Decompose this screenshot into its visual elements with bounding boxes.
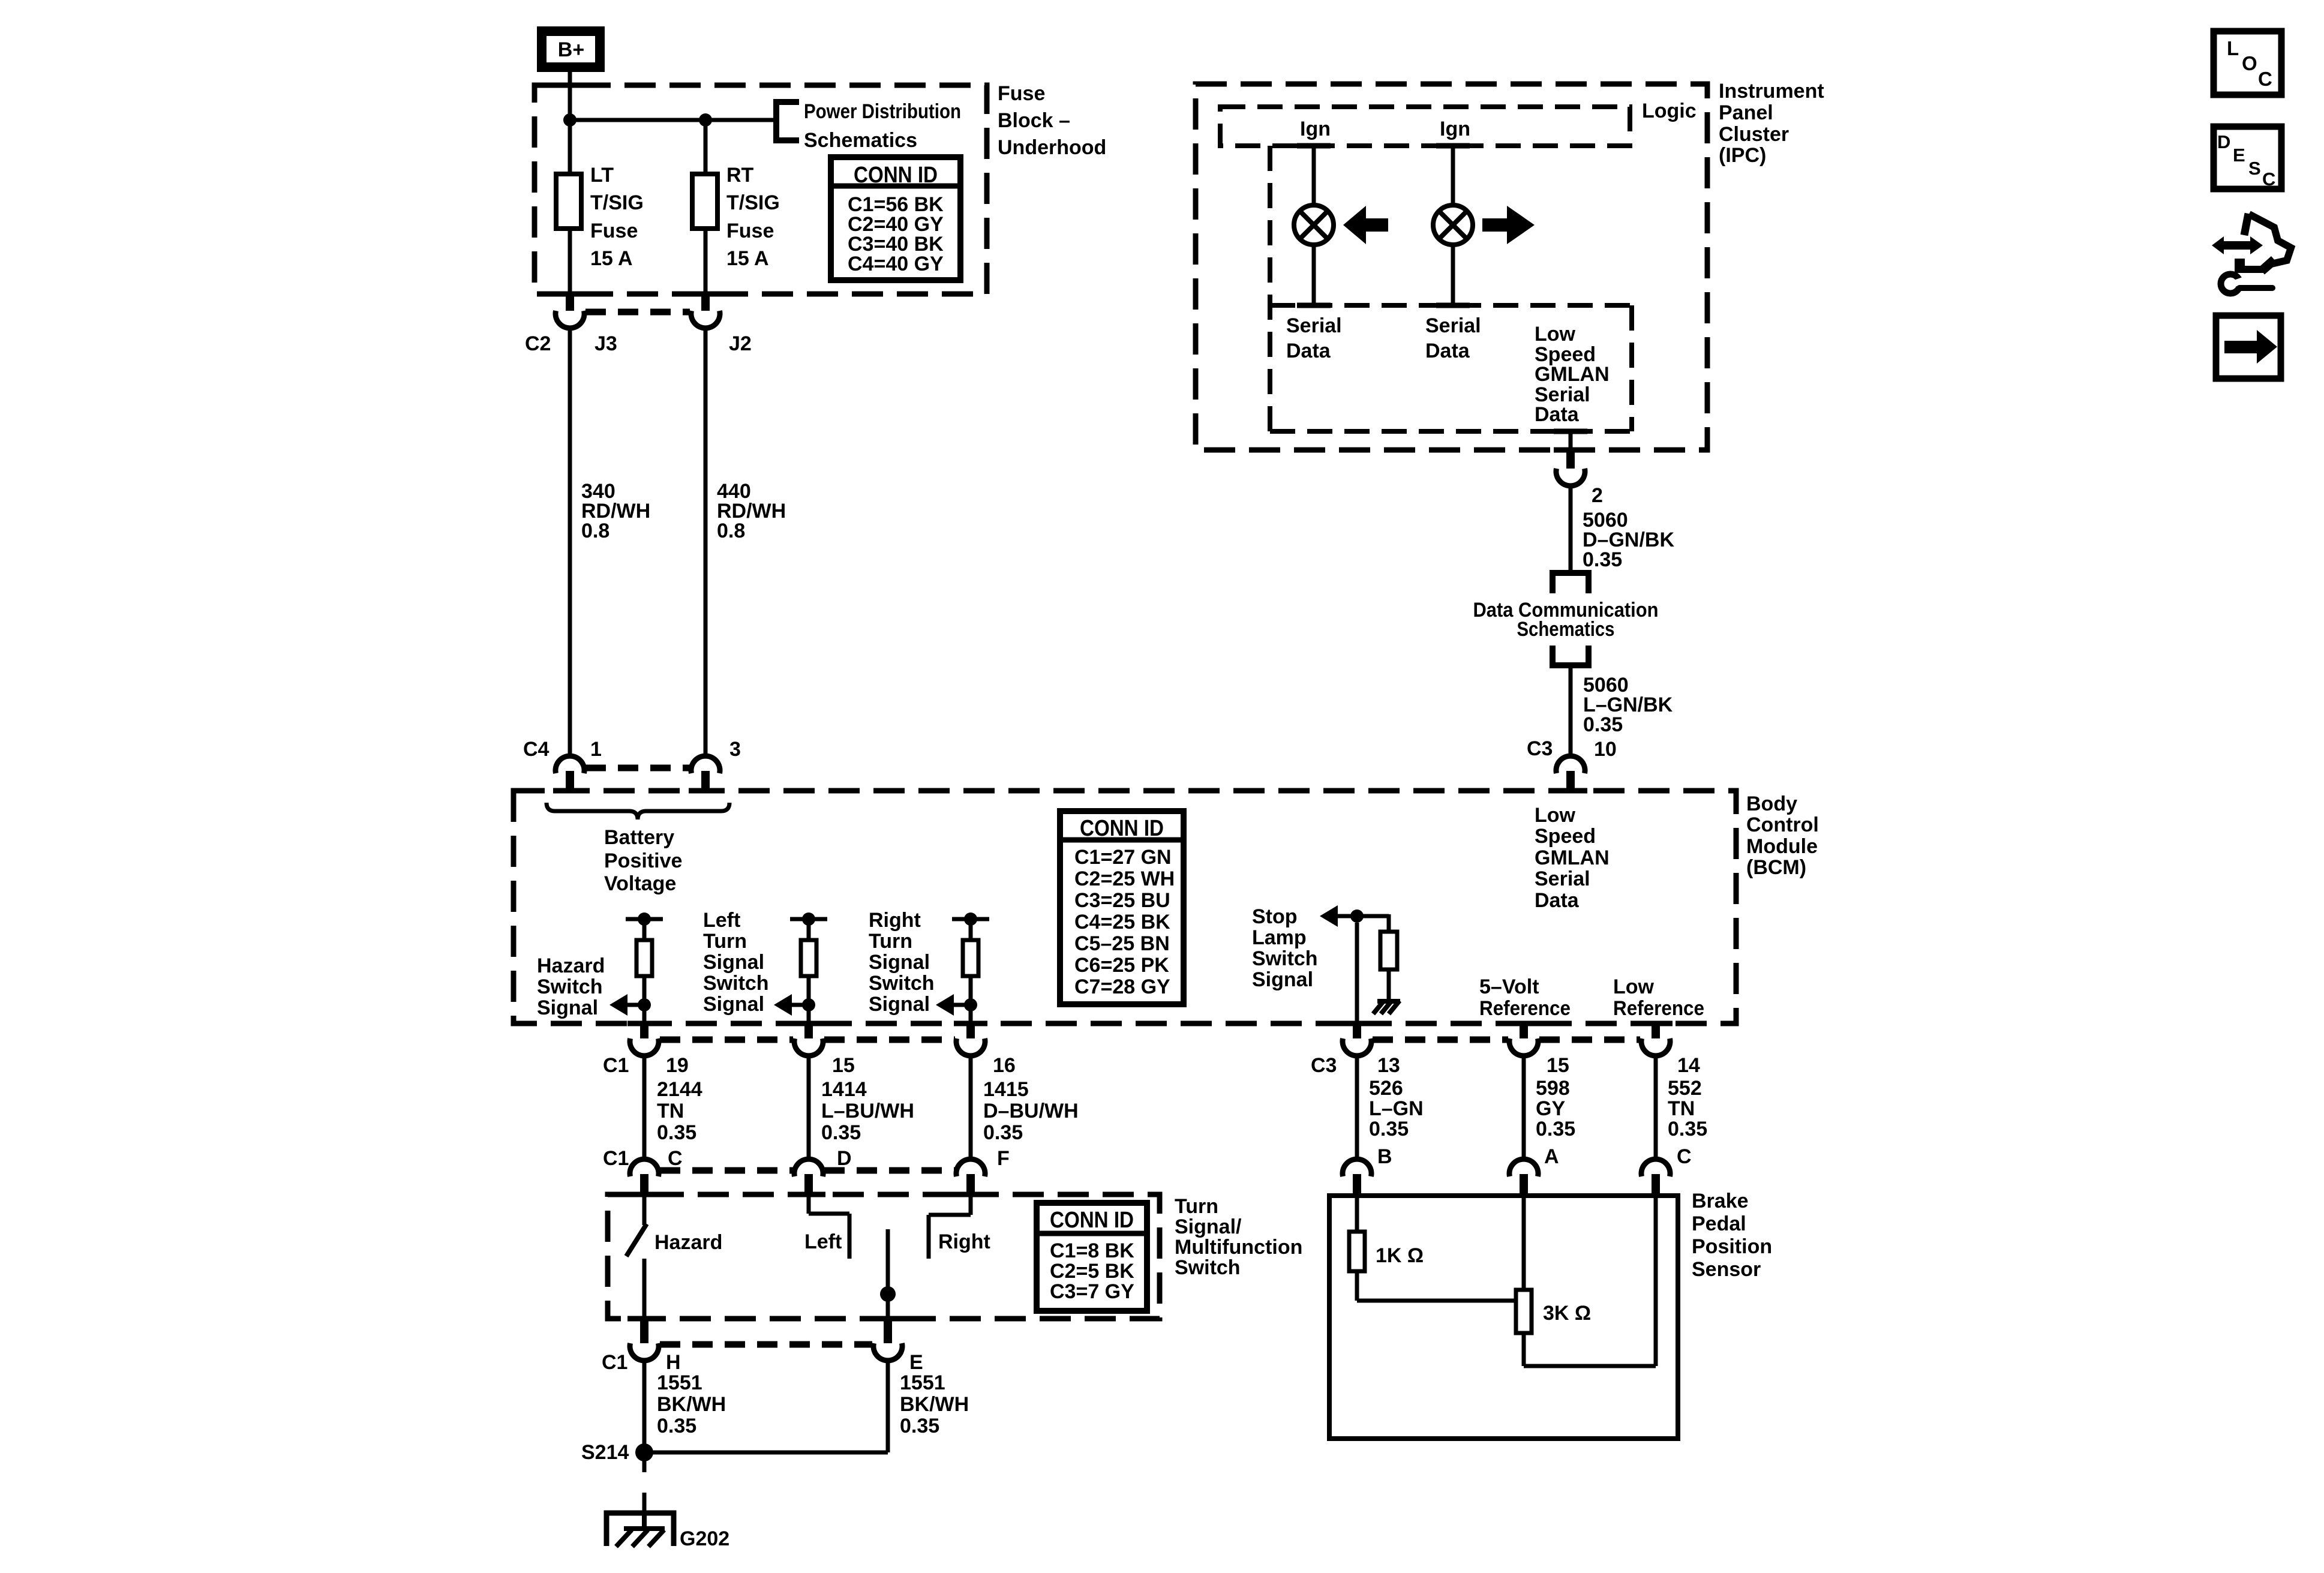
svg-text:Battery: Battery xyxy=(604,826,674,849)
wire RT fuse feed xyxy=(704,120,708,174)
icon LOC box xyxy=(2214,31,2281,95)
connector C2 J2 cup xyxy=(691,311,720,328)
svg-text:Switch: Switch xyxy=(703,972,769,995)
label Body Control Module BCM xyxy=(1746,792,1819,879)
right turn wire bar to resistor xyxy=(969,919,973,940)
svg-text:Switch: Switch xyxy=(869,972,935,995)
svg-text:15 A: 15 A xyxy=(590,247,633,270)
svg-text:C: C xyxy=(668,1147,683,1170)
label J2 xyxy=(729,332,752,355)
svg-text:Signal/: Signal/ xyxy=(1175,1215,1242,1238)
svg-text:C3: C3 xyxy=(1527,737,1553,760)
svg-text:F: F xyxy=(997,1147,1010,1170)
connector C3 pin 10 dome xyxy=(1556,756,1585,773)
pin A into sensor xyxy=(1520,1174,1528,1197)
svg-text:0.35: 0.35 xyxy=(1583,713,1623,736)
label pin 3 xyxy=(729,738,741,761)
svg-text:16: 16 xyxy=(993,1054,1016,1077)
svg-text:10: 10 xyxy=(1594,738,1617,761)
svg-text:Body: Body xyxy=(1746,792,1797,815)
lamp left turn indicator xyxy=(1294,205,1334,245)
wire 526 L–GN xyxy=(1355,1055,1359,1158)
svg-text:GMLAN: GMLAN xyxy=(1535,363,1610,386)
svg-text:Low: Low xyxy=(1535,804,1576,827)
svg-text:BK/WH: BK/WH xyxy=(900,1393,969,1416)
svg-text:Lamp: Lamp xyxy=(1252,926,1307,949)
svg-text:Low: Low xyxy=(1613,975,1655,998)
svg-text:Data: Data xyxy=(1425,340,1470,362)
pin 2 connector IPC xyxy=(1566,450,1575,469)
label Serial Data left xyxy=(1286,314,1342,362)
svg-text:CONN ID: CONN ID xyxy=(854,163,938,188)
label pin E xyxy=(909,1351,923,1374)
label pin 2 xyxy=(1592,484,1603,507)
pin 1 into BCM xyxy=(566,771,574,792)
svg-text:Schematics: Schematics xyxy=(804,129,917,152)
wire GMLAN out of IPC xyxy=(1569,431,1573,451)
wire 340 RD/WH xyxy=(568,328,572,757)
connector C1 pin C dome xyxy=(630,1159,659,1176)
pin D into switch xyxy=(804,1174,813,1196)
svg-text:Sensor: Sensor xyxy=(1692,1258,1761,1281)
left turn arrow junction dot xyxy=(802,998,815,1011)
svg-text:1551: 1551 xyxy=(900,1371,945,1394)
splice S214 dot xyxy=(635,1443,653,1461)
wire B+ to fuse block xyxy=(568,67,572,120)
hazard driver bar xyxy=(626,917,663,921)
label pin 19 xyxy=(666,1054,689,1077)
svg-text:T/SIG: T/SIG xyxy=(726,191,780,214)
svg-text:Reference: Reference xyxy=(1479,997,1571,1020)
label J3 xyxy=(594,332,617,355)
svg-text:Instrument: Instrument xyxy=(1719,80,1824,103)
svg-text:H: H xyxy=(666,1351,681,1374)
CONN ID table switch xyxy=(1037,1203,1147,1311)
svg-text:LT: LT xyxy=(590,164,614,187)
wire 1551 BK/WH right xyxy=(886,1360,890,1452)
wire into 3K resistor xyxy=(1522,1197,1526,1290)
svg-text:598: 598 xyxy=(1536,1077,1570,1100)
label C2 xyxy=(525,332,551,355)
svg-text:C1: C1 xyxy=(603,1054,629,1077)
pin 19 connector C1 xyxy=(640,1022,648,1038)
svg-text:Logic: Logic xyxy=(1642,100,1697,122)
svg-text:C2=25 WH: C2=25 WH xyxy=(1074,867,1175,890)
label pin D xyxy=(837,1147,852,1170)
svg-text:L–BU/WH: L–BU/WH xyxy=(821,1100,914,1122)
svg-text:C1: C1 xyxy=(603,1147,629,1170)
right arrow icon xyxy=(1482,206,1535,244)
svg-text:1415: 1415 xyxy=(983,1078,1029,1101)
label pin F xyxy=(997,1147,1010,1170)
svg-text:S214: S214 xyxy=(581,1441,629,1464)
svg-text:Fuse: Fuse xyxy=(726,220,774,242)
wire bus horizontal xyxy=(570,118,776,122)
CONN ID table fuse block xyxy=(831,157,960,280)
fuse F2 RT T/SIG 15A xyxy=(692,174,717,229)
svg-text:Reference: Reference xyxy=(1613,997,1704,1020)
svg-text:Block –: Block – xyxy=(998,109,1070,132)
brake pedal position sensor box xyxy=(1329,1196,1678,1439)
wire S214 to ground xyxy=(642,1460,647,1514)
pin 13 connector C3 xyxy=(1353,1022,1361,1038)
dotted line connector C3 row xyxy=(1373,1037,1640,1043)
svg-text:Switch: Switch xyxy=(537,975,603,998)
label Serial Data right xyxy=(1425,314,1481,362)
off-page bracket from data comm lower xyxy=(1553,646,1589,665)
wire stop lamp down xyxy=(1355,923,1359,1023)
svg-text:Fuse: Fuse xyxy=(998,82,1045,105)
svg-text:Pedal: Pedal xyxy=(1692,1212,1746,1235)
left contact xyxy=(809,1196,849,1259)
svg-text:Signal: Signal xyxy=(869,993,930,1016)
logic dashed box xyxy=(1220,107,1630,146)
label Low Speed GMLAN Serial Data BCM xyxy=(1535,804,1610,912)
connector C4 pin 1 dome xyxy=(556,756,584,773)
label C3 at BCM xyxy=(1527,737,1553,760)
dotted line connector C1 bottom row xyxy=(660,1341,872,1348)
right turn signal arrow xyxy=(936,994,971,1016)
label Brake Pedal Position Sensor xyxy=(1692,1190,1772,1281)
label Low Reference xyxy=(1613,975,1704,1020)
svg-text:0.35: 0.35 xyxy=(1583,548,1622,571)
svg-text:0.35: 0.35 xyxy=(1668,1118,1707,1140)
svg-text:Panel: Panel xyxy=(1719,101,1773,124)
svg-text:C4=25 BK: C4=25 BK xyxy=(1074,911,1170,933)
BCM dashed box xyxy=(514,791,1736,1023)
icon next-page arrow box xyxy=(2216,316,2281,379)
svg-text:0.8: 0.8 xyxy=(717,520,745,542)
hazard switch wire lower xyxy=(642,1259,647,1319)
left turn wire to BCM edge xyxy=(807,1005,811,1023)
label pin H xyxy=(666,1351,681,1374)
svg-text:0.35: 0.35 xyxy=(983,1121,1023,1144)
svg-text:19: 19 xyxy=(666,1054,689,1077)
right contact xyxy=(929,1196,971,1259)
svg-text:Left: Left xyxy=(703,909,740,932)
wire Ign to left lamp xyxy=(1312,146,1316,206)
lamp right turn indicator xyxy=(1433,205,1473,245)
wire 1K to 3K xyxy=(1357,1271,1516,1301)
left turn driver bar dot xyxy=(802,912,815,926)
common contact wire xyxy=(886,1229,890,1319)
svg-text:Voltage: Voltage xyxy=(604,872,676,895)
label pin A xyxy=(1544,1145,1559,1168)
svg-text:J3: J3 xyxy=(594,332,617,355)
svg-text:0.35: 0.35 xyxy=(1369,1118,1409,1140)
label C1 upper xyxy=(603,1054,629,1077)
label wire 1415 xyxy=(983,1078,1079,1144)
svg-text:D: D xyxy=(837,1147,852,1170)
svg-text:Hazard: Hazard xyxy=(654,1231,722,1254)
pin 10 into BCM xyxy=(1566,771,1575,792)
label Hazard Switch Signal xyxy=(537,954,605,1019)
svg-text:15: 15 xyxy=(1547,1054,1569,1077)
label G202 xyxy=(680,1527,729,1550)
dotted line connector C1 upper row xyxy=(660,1037,955,1043)
svg-text:15: 15 xyxy=(832,1054,855,1077)
label wire 5060 L-GN/BK 0.35 xyxy=(1583,674,1673,736)
label Right Turn Signal Switch Signal xyxy=(869,909,935,1016)
svg-text:D: D xyxy=(2217,131,2230,152)
svg-text:0.35: 0.35 xyxy=(657,1121,696,1144)
dotted line connector C1 lower row xyxy=(660,1167,955,1174)
wire resistor to ground xyxy=(1387,969,1391,1001)
pin J3 connector C2 xyxy=(566,292,574,311)
label Ign left xyxy=(1300,118,1331,140)
svg-text:RT: RT xyxy=(726,164,754,187)
dotted line connector C4 xyxy=(585,765,690,772)
svg-text:1414: 1414 xyxy=(821,1078,867,1101)
svg-text:C5–25 BN: C5–25 BN xyxy=(1074,932,1170,955)
resistor left turn signal xyxy=(801,940,816,976)
GMLAN box right dashed edge xyxy=(1629,305,1634,431)
wire RT fuse down xyxy=(704,229,708,293)
connector C1 pin F dome xyxy=(956,1159,985,1176)
svg-text:Turn: Turn xyxy=(869,930,912,953)
wire LT fuse down xyxy=(568,229,572,293)
fuse F1 LT T/SIG 15A xyxy=(556,174,581,229)
svg-text:GY: GY xyxy=(1536,1097,1565,1120)
svg-text:Signal: Signal xyxy=(703,951,764,974)
connector C3 pin 14 cup xyxy=(1641,1038,1670,1056)
svg-text:C4: C4 xyxy=(523,738,550,761)
lamp box bottom dashed edge xyxy=(1270,303,1632,308)
label wire 340 RD/WH 0.8 xyxy=(581,480,650,542)
svg-text:J2: J2 xyxy=(729,332,752,355)
svg-text:E: E xyxy=(2233,145,2245,166)
svg-text:C: C xyxy=(2262,169,2275,190)
label pin B xyxy=(1377,1145,1392,1168)
svg-text:Right: Right xyxy=(938,1230,990,1253)
svg-text:E: E xyxy=(909,1351,923,1374)
wire left lamp to serial data xyxy=(1312,244,1316,305)
connector C1 pin 16 cup xyxy=(956,1038,985,1056)
svg-text:Data: Data xyxy=(1535,889,1580,912)
label Logic xyxy=(1642,100,1697,122)
svg-text:0.35: 0.35 xyxy=(900,1415,939,1437)
svg-text:15 A: 15 A xyxy=(726,247,769,270)
label Low Speed GMLAN Serial Data IPC xyxy=(1535,323,1610,426)
svg-text:C2=5 BK: C2=5 BK xyxy=(1050,1260,1134,1283)
svg-text:Right: Right xyxy=(869,909,921,932)
label wire 1551 left xyxy=(657,1371,726,1437)
common contact dot xyxy=(880,1286,896,1302)
svg-text:C2: C2 xyxy=(525,332,551,355)
svg-text:Data: Data xyxy=(1286,340,1331,362)
svg-text:GMLAN: GMLAN xyxy=(1535,846,1610,869)
svg-text:Turn: Turn xyxy=(703,930,747,953)
label Instrument Panel Cluster IPC xyxy=(1719,80,1824,167)
label Ign right xyxy=(1440,118,1470,140)
hazard wire bar to resistor xyxy=(642,919,647,940)
connector sensor pin A dome xyxy=(1509,1159,1538,1176)
label Battery Positive Voltage xyxy=(604,826,682,895)
svg-text:Fuse: Fuse xyxy=(590,220,638,242)
svg-text:Position: Position xyxy=(1692,1235,1772,1258)
label Data Communication Schematics xyxy=(1473,599,1659,641)
wire splice horizontal xyxy=(644,1451,888,1455)
label Stop Lamp Switch Signal xyxy=(1252,905,1318,991)
svg-text:C3=7 GY: C3=7 GY xyxy=(1050,1280,1134,1303)
label fuse F1 xyxy=(590,164,644,270)
right turn driver bar dot xyxy=(964,912,977,926)
connector C2 J3 cup xyxy=(556,311,584,328)
label C1 bottom xyxy=(602,1351,627,1374)
svg-text:5–Volt: 5–Volt xyxy=(1479,975,1539,998)
wire 5060 D-GN/BK upper xyxy=(1569,487,1573,572)
pin C2 into sensor xyxy=(1652,1174,1660,1197)
svg-text:3: 3 xyxy=(729,738,741,761)
label fuse F2 xyxy=(726,164,780,270)
ground internal BCM xyxy=(1373,1001,1400,1014)
svg-text:Signal: Signal xyxy=(703,993,764,1016)
resistor 1K xyxy=(1349,1232,1365,1271)
label wire 598 xyxy=(1536,1077,1575,1140)
resistor 3K xyxy=(1516,1290,1532,1333)
svg-text:Power Distribution: Power Distribution xyxy=(804,100,961,123)
power node B+ xyxy=(542,31,600,67)
label wire 1414 xyxy=(821,1078,914,1144)
label pin 15 xyxy=(832,1054,855,1077)
label S214 xyxy=(581,1441,629,1464)
pin F into switch xyxy=(966,1174,975,1196)
wire 1551 BK/WH left xyxy=(642,1360,647,1452)
label Fuse Block - Underhood xyxy=(998,82,1106,159)
svg-text:Module: Module xyxy=(1746,835,1818,858)
hazard arrow junction dot xyxy=(638,998,651,1011)
pin 15 connector C1 xyxy=(804,1022,813,1038)
connector pin 2 cup xyxy=(1556,469,1585,486)
svg-text:D–BU/WH: D–BU/WH xyxy=(983,1100,1079,1122)
svg-text:A: A xyxy=(1544,1145,1559,1168)
svg-text:C3=25 BU: C3=25 BU xyxy=(1074,889,1170,912)
connector sensor pin B dome xyxy=(1343,1159,1371,1176)
svg-text:T/SIG: T/SIG xyxy=(590,191,644,214)
hazard signal arrow xyxy=(609,994,644,1016)
svg-text:C7=28 GY: C7=28 GY xyxy=(1074,975,1170,998)
label pin 14 xyxy=(1677,1054,1700,1077)
svg-text:CONN ID: CONN ID xyxy=(1050,1208,1134,1233)
svg-text:0.8: 0.8 xyxy=(581,520,609,542)
svg-text:B: B xyxy=(1377,1145,1392,1168)
label pin C xyxy=(668,1147,683,1170)
svg-text:Switch: Switch xyxy=(1252,947,1318,970)
svg-text:Multifunction: Multifunction xyxy=(1175,1236,1302,1259)
label wire 526 xyxy=(1369,1077,1424,1140)
label C4 xyxy=(523,738,550,761)
label 1K ohm xyxy=(1376,1244,1424,1267)
svg-text:TN: TN xyxy=(1668,1097,1695,1120)
pin 16 connector C1 xyxy=(966,1022,975,1038)
wire 2144 TN xyxy=(642,1055,647,1158)
label wire 1551 right xyxy=(900,1371,969,1437)
svg-text:C: C xyxy=(1677,1145,1692,1168)
wire attachment ticks on dashed borders xyxy=(553,85,1673,1319)
label wire 552 xyxy=(1668,1077,1707,1140)
wire 5060 L-GN/BK lower xyxy=(1569,665,1573,757)
label wire 440 RD/WH 0.8 xyxy=(717,480,786,542)
label pin 13 xyxy=(1377,1054,1400,1077)
svg-text:Ign: Ign xyxy=(1440,118,1470,140)
wire 440 RD/WH xyxy=(704,328,708,757)
svg-text:C1=8 BK: C1=8 BK xyxy=(1050,1239,1134,1262)
label 5-Volt Reference xyxy=(1479,975,1571,1020)
wire right lamp to serial data xyxy=(1451,244,1455,305)
svg-text:Signal: Signal xyxy=(537,996,598,1019)
svg-text:G202: G202 xyxy=(680,1527,729,1550)
label wire 5060 D-GN/BK 0.35 xyxy=(1583,509,1674,571)
svg-text:3K Ω: 3K Ω xyxy=(1543,1302,1591,1325)
wire Ign to right lamp xyxy=(1451,146,1455,206)
svg-text:Left: Left xyxy=(804,1230,842,1253)
pin 3 into BCM xyxy=(701,771,710,792)
wire bus to LT fuse xyxy=(568,120,572,174)
resistor right turn signal xyxy=(963,940,978,976)
node junction dot at RT fuse feed xyxy=(699,113,712,127)
right turn wire resistor to arrow xyxy=(969,976,973,1005)
stop lamp junction dot xyxy=(1350,909,1364,923)
icon diagnostic dog-head xyxy=(2212,214,2291,293)
svg-text:Signal: Signal xyxy=(1252,968,1313,991)
stop lamp signal arrow xyxy=(1320,905,1357,927)
svg-text:Control: Control xyxy=(1746,813,1819,836)
wire 552 TN xyxy=(1654,1055,1658,1158)
svg-text:1K Ω: 1K Ω xyxy=(1376,1244,1424,1267)
dotted line connector C2 xyxy=(585,309,690,316)
fuse block dashed box xyxy=(535,85,987,294)
label pin 16 xyxy=(993,1054,1016,1077)
label Left Turn Signal Switch Signal xyxy=(703,909,769,1016)
hazard wire to BCM edge xyxy=(642,1005,647,1023)
svg-text:Positive: Positive xyxy=(604,849,682,872)
left turn wire bar to resistor xyxy=(807,919,811,940)
svg-text:O: O xyxy=(2242,52,2257,74)
svg-text:B+: B+ xyxy=(558,38,584,61)
connector C3 pin 15r cup xyxy=(1509,1038,1538,1056)
svg-text:CONN ID: CONN ID xyxy=(1080,816,1164,841)
off-page bracket Power Distribution xyxy=(776,102,799,140)
label pin C sensor xyxy=(1677,1145,1692,1168)
hazard wire resistor to arrow xyxy=(642,976,647,1005)
label pin 15 right xyxy=(1547,1054,1569,1077)
label C3 lower xyxy=(1311,1054,1337,1077)
label 3K ohm xyxy=(1543,1302,1591,1325)
svg-text:Switch: Switch xyxy=(1175,1256,1241,1279)
hazard switch wire upper xyxy=(642,1196,647,1225)
svg-text:Stop: Stop xyxy=(1252,905,1298,928)
connector C4 pin 3 dome xyxy=(691,756,720,773)
label C1 lower xyxy=(603,1147,629,1170)
svg-text:552: 552 xyxy=(1668,1077,1702,1100)
pin 14 connector C3 xyxy=(1652,1022,1660,1038)
svg-text:526: 526 xyxy=(1369,1077,1403,1100)
label Hazard xyxy=(654,1231,722,1254)
svg-text:S: S xyxy=(2248,158,2261,179)
svg-text:1: 1 xyxy=(590,738,602,761)
svg-text:13: 13 xyxy=(1377,1054,1400,1077)
CONN ID table BCM xyxy=(1060,811,1184,1004)
connector C1 pin E cup xyxy=(873,1343,902,1361)
svg-text:Cluster: Cluster xyxy=(1719,123,1789,146)
label Turn Signal Multifunction Switch xyxy=(1175,1195,1302,1279)
svg-text:(BCM): (BCM) xyxy=(1746,856,1806,879)
svg-text:2: 2 xyxy=(1592,484,1603,507)
connector C1 pin H cup xyxy=(630,1343,659,1361)
svg-text:14: 14 xyxy=(1677,1054,1700,1077)
svg-text:1551: 1551 xyxy=(657,1371,702,1394)
svg-text:0.35: 0.35 xyxy=(821,1121,861,1144)
